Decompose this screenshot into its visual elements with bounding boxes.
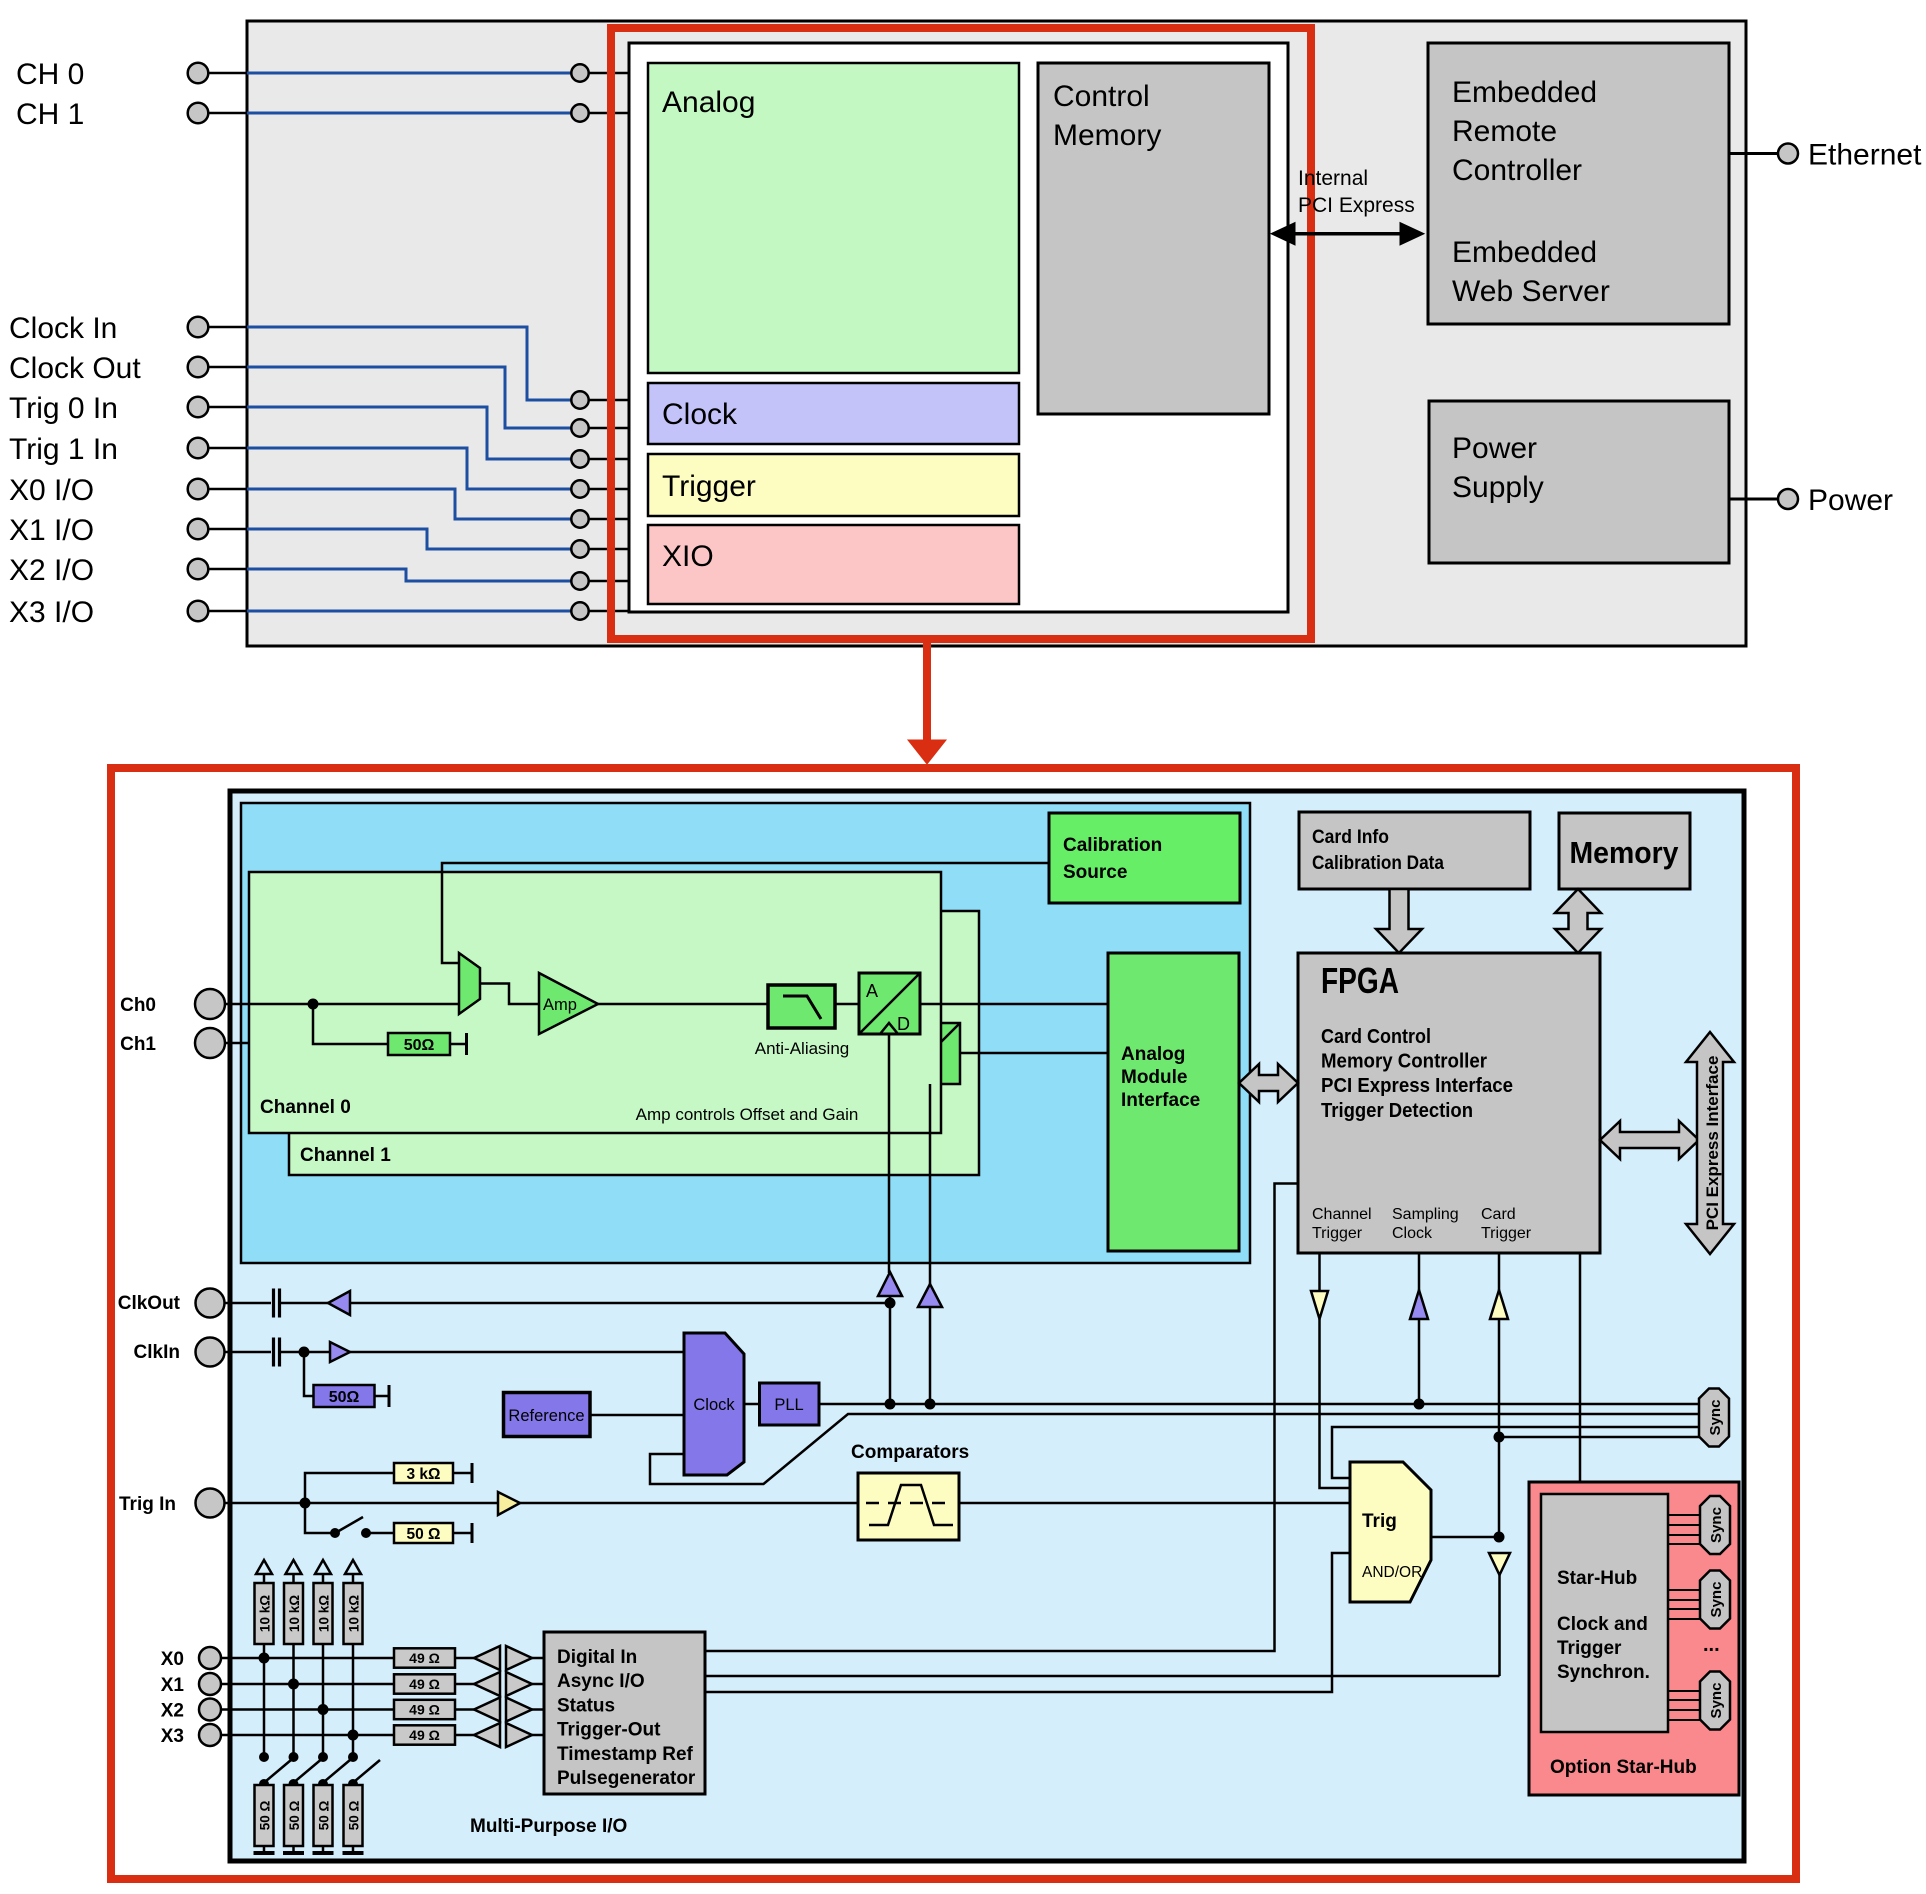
svg-text:10 kΩ: 10 kΩ bbox=[347, 1595, 362, 1632]
svg-text:Memory Controller: Memory Controller bbox=[1321, 1051, 1487, 1073]
svg-text:Amp: Amp bbox=[543, 996, 577, 1014]
svg-text:Clock and: Clock and bbox=[1557, 1614, 1648, 1635]
svg-text:X0: X0 bbox=[161, 1649, 184, 1670]
svg-text:Digital In: Digital In bbox=[557, 1647, 637, 1668]
svg-text:Web Server: Web Server bbox=[1452, 275, 1610, 308]
svg-text:Clock: Clock bbox=[662, 398, 738, 431]
svg-text:50 Ω: 50 Ω bbox=[407, 1526, 441, 1543]
svg-text:Option Star-Hub: Option Star-Hub bbox=[1550, 1757, 1697, 1778]
svg-text:Trig 1 In: Trig 1 In bbox=[9, 433, 118, 466]
svg-text:50 Ω: 50 Ω bbox=[258, 1801, 273, 1831]
svg-text:Card: Card bbox=[1481, 1206, 1516, 1223]
svg-text:50Ω: 50Ω bbox=[404, 1037, 435, 1054]
svg-text:Reference: Reference bbox=[508, 1407, 584, 1425]
svg-text:Analog: Analog bbox=[1121, 1044, 1185, 1065]
svg-text:Sync: Sync bbox=[1707, 1400, 1724, 1436]
svg-text:Clock In: Clock In bbox=[9, 312, 117, 345]
svg-text:Clock Out: Clock Out bbox=[9, 352, 141, 385]
svg-text:X1: X1 bbox=[161, 1675, 185, 1696]
svg-text:Status: Status bbox=[557, 1695, 615, 1716]
svg-text:AND/OR: AND/OR bbox=[1362, 1564, 1422, 1581]
svg-text:Async I/O: Async I/O bbox=[557, 1671, 645, 1692]
svg-text:Trig In: Trig In bbox=[119, 1494, 176, 1515]
svg-text:Card Info: Card Info bbox=[1312, 827, 1389, 848]
svg-text:XIO: XIO bbox=[662, 540, 714, 573]
svg-text:Pulsegenerator: Pulsegenerator bbox=[557, 1768, 696, 1789]
svg-text:ClkOut: ClkOut bbox=[118, 1293, 181, 1314]
svg-text:Clock: Clock bbox=[693, 1396, 735, 1414]
svg-text:Multi-Purpose I/O: Multi-Purpose I/O bbox=[470, 1816, 627, 1837]
svg-text:Timestamp Ref: Timestamp Ref bbox=[557, 1744, 694, 1765]
svg-text:Amp controls Offset and Gain: Amp controls Offset and Gain bbox=[636, 1105, 859, 1124]
svg-text:Sync: Sync bbox=[1708, 1582, 1725, 1618]
svg-text:49 Ω: 49 Ω bbox=[409, 1650, 440, 1666]
svg-text:50Ω: 50Ω bbox=[329, 1389, 360, 1406]
svg-text:CH 0: CH 0 bbox=[16, 58, 84, 91]
svg-text:Power: Power bbox=[1452, 432, 1537, 465]
svg-text:3 kΩ: 3 kΩ bbox=[407, 1466, 441, 1483]
svg-text:10 kΩ: 10 kΩ bbox=[287, 1595, 302, 1632]
svg-text:D: D bbox=[897, 1014, 910, 1034]
svg-text:FPGA: FPGA bbox=[1321, 960, 1399, 1001]
svg-text:Control: Control bbox=[1053, 80, 1150, 113]
svg-text:Source: Source bbox=[1063, 862, 1127, 883]
svg-text:Comparators: Comparators bbox=[851, 1442, 969, 1463]
svg-text:Clock: Clock bbox=[1392, 1225, 1433, 1242]
svg-text:PCI Express: PCI Express bbox=[1298, 194, 1415, 217]
svg-text:Interface: Interface bbox=[1121, 1090, 1200, 1111]
svg-text:Anti-Aliasing: Anti-Aliasing bbox=[755, 1039, 850, 1058]
svg-text:Card Control: Card Control bbox=[1321, 1026, 1431, 1048]
svg-text:PCI Express Interface: PCI Express Interface bbox=[1321, 1075, 1513, 1097]
svg-text:X3: X3 bbox=[161, 1726, 184, 1747]
svg-text:Trigger: Trigger bbox=[1557, 1638, 1622, 1659]
svg-text:50 Ω: 50 Ω bbox=[347, 1801, 362, 1831]
svg-text:A: A bbox=[866, 981, 878, 1001]
svg-text:X0 I/O: X0 I/O bbox=[9, 474, 94, 507]
svg-text:Internal: Internal bbox=[1298, 167, 1368, 190]
svg-text:Trigger Detection: Trigger Detection bbox=[1321, 1100, 1473, 1122]
svg-text:50 Ω: 50 Ω bbox=[287, 1801, 302, 1831]
svg-text:Module: Module bbox=[1121, 1067, 1188, 1088]
svg-text:Remote: Remote bbox=[1452, 115, 1557, 148]
svg-text:CH 1: CH 1 bbox=[16, 98, 84, 131]
svg-text:49 Ω: 49 Ω bbox=[409, 1676, 440, 1692]
svg-text:Ethernet: Ethernet bbox=[1808, 139, 1922, 172]
svg-text:Sync: Sync bbox=[1708, 1683, 1725, 1719]
svg-text:...: ... bbox=[1703, 1634, 1720, 1656]
svg-text:50 Ω: 50 Ω bbox=[317, 1801, 332, 1831]
svg-text:X1 I/O: X1 I/O bbox=[9, 514, 94, 547]
svg-text:Trigger: Trigger bbox=[1312, 1225, 1363, 1242]
svg-text:Memory: Memory bbox=[1053, 119, 1161, 152]
svg-text:PCI Express Interface: PCI Express Interface bbox=[1703, 1056, 1722, 1231]
svg-text:Trigger: Trigger bbox=[662, 470, 756, 503]
svg-text:Ch0: Ch0 bbox=[120, 995, 156, 1016]
svg-text:Star-Hub: Star-Hub bbox=[1557, 1568, 1637, 1589]
svg-text:Embedded: Embedded bbox=[1452, 76, 1597, 109]
svg-text:Trigger-Out: Trigger-Out bbox=[557, 1720, 661, 1741]
svg-text:PLL: PLL bbox=[774, 1396, 803, 1414]
svg-text:Analog: Analog bbox=[662, 86, 755, 119]
svg-text:Channel: Channel bbox=[1312, 1206, 1372, 1223]
svg-text:Calibration: Calibration bbox=[1063, 835, 1162, 856]
svg-text:Calibration Data: Calibration Data bbox=[1312, 853, 1444, 874]
svg-text:Supply: Supply bbox=[1452, 471, 1544, 504]
svg-text:Sampling: Sampling bbox=[1392, 1206, 1459, 1223]
svg-text:Channel 1: Channel 1 bbox=[300, 1145, 391, 1166]
svg-text:ClkIn: ClkIn bbox=[134, 1342, 180, 1363]
svg-text:49 Ω: 49 Ω bbox=[409, 1727, 440, 1743]
svg-text:Channel 0: Channel 0 bbox=[260, 1097, 351, 1118]
svg-text:Controller: Controller bbox=[1452, 154, 1582, 187]
svg-text:Memory: Memory bbox=[1570, 835, 1680, 870]
svg-text:X2 I/O: X2 I/O bbox=[9, 554, 94, 587]
svg-text:Embedded: Embedded bbox=[1452, 236, 1597, 269]
svg-text:10 kΩ: 10 kΩ bbox=[258, 1595, 273, 1632]
svg-text:10 kΩ: 10 kΩ bbox=[317, 1595, 332, 1632]
svg-text:Synchron.: Synchron. bbox=[1557, 1662, 1650, 1683]
svg-text:Trig: Trig bbox=[1362, 1511, 1397, 1532]
svg-text:Trig 0 In: Trig 0 In bbox=[9, 392, 118, 425]
svg-text:49 Ω: 49 Ω bbox=[409, 1702, 440, 1718]
svg-text:Sync: Sync bbox=[1708, 1507, 1725, 1543]
svg-text:Ch1: Ch1 bbox=[120, 1034, 156, 1055]
svg-text:X3 I/O: X3 I/O bbox=[9, 596, 94, 629]
svg-text:Power: Power bbox=[1808, 484, 1893, 517]
svg-text:Trigger: Trigger bbox=[1481, 1225, 1532, 1242]
svg-text:X2: X2 bbox=[161, 1701, 184, 1722]
